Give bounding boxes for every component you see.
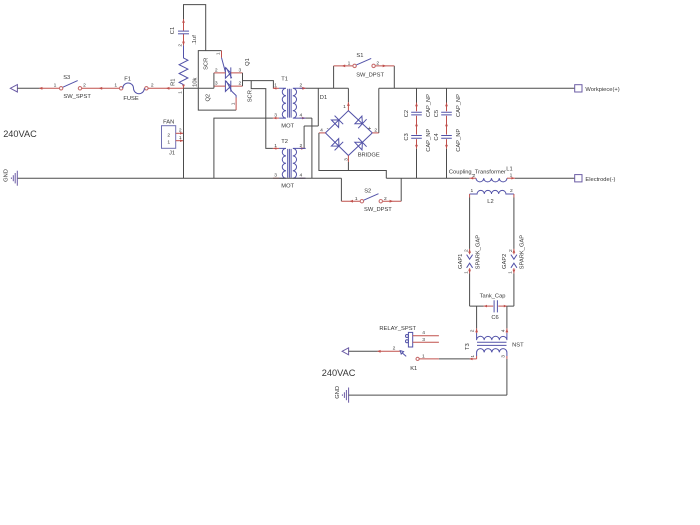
svg-text:GND: GND [335,386,341,399]
svg-text:1: 1 [274,83,277,89]
svg-text:SCR: SCR [248,90,254,102]
wire bottom ground rail [349,394,507,396]
inductor L1 Coupling_Transformer [449,166,515,182]
capacitor C4 CAP_NP [434,129,462,179]
SCR junction verticals [214,73,243,88]
capacitor C3 CAP_NP [404,129,432,179]
net flag 240VAC bottom arrow [322,348,356,378]
svg-text:3: 3 [501,355,507,358]
svg-text:D1: D1 [320,95,327,101]
svg-text:2: 2 [151,83,154,89]
resistor R1 10k [170,44,198,94]
svg-text:C1: C1 [170,27,176,34]
net flag 240VAC hot (left arrow) [3,85,37,139]
wire tank rail to T3 [476,306,478,328]
connector J1 FAN [162,119,184,156]
ground symbol left GND [4,169,18,186]
wire node to SCR block [184,87,214,89]
ground symbol bottom GND [335,386,349,403]
svg-text:1: 1 [216,52,222,55]
svg-text:1: 1 [422,353,425,359]
svg-text:2: 2 [472,173,475,179]
svg-text:SW_SPST: SW_SPST [63,94,91,100]
svg-text:2: 2 [508,249,514,252]
svg-text:1: 1 [274,143,277,149]
svg-text:Q1: Q1 [245,58,251,66]
svg-text:3: 3 [422,337,425,343]
port Electrode(-) [575,175,616,183]
spark gap GAP1 SPARK_GAP [458,235,481,274]
capacitor C1 .1uf [170,19,198,45]
svg-text:2: 2 [384,196,387,202]
svg-text:240VAC: 240VAC [322,368,356,378]
svg-text:RELAY_SPST: RELAY_SPST [379,326,416,332]
transformer T2 MOT [273,139,306,190]
svg-text:T1: T1 [281,76,288,82]
svg-text:4: 4 [500,329,506,332]
svg-text:Q2: Q2 [205,94,211,102]
wire arrow to relay [349,350,401,353]
svg-text:3: 3 [239,67,242,73]
svg-text:2: 2 [469,329,475,332]
svg-text:FUSE: FUSE [123,96,138,102]
wire T1 pin2 along top [306,87,349,89]
svg-text:2: 2 [167,132,170,138]
svg-text:2: 2 [177,44,183,47]
svg-text:1: 1 [510,172,513,178]
svg-text:4: 4 [300,113,303,119]
svg-text:240VAC: 240VAC [3,129,37,139]
svg-text:NST: NST [512,343,524,349]
svg-text:L2: L2 [487,199,493,205]
svg-text:CAP_NP: CAP_NP [426,129,432,152]
svg-text:J1: J1 [169,151,175,157]
wire bridge pin2 up to top rail [378,88,380,133]
svg-text:T3: T3 [465,343,471,350]
wire L2 left leg down [469,198,471,249]
capacitor C5 CAP_NP [434,88,462,134]
svg-text:1: 1 [463,271,469,274]
svg-text:4: 4 [320,127,323,133]
svg-text:SPARK_GAP: SPARK_GAP [520,235,526,270]
svg-text:1: 1 [54,83,57,89]
transformer T1 MOT [273,76,306,129]
fuse F1 [114,77,154,103]
svg-text:1: 1 [179,135,182,141]
svg-text:2: 2 [393,346,396,352]
wire bridge pin3/pin4 U loop [319,133,386,178]
svg-text:FAN: FAN [163,119,174,125]
wire F1 to node R1 [148,87,183,90]
svg-text:SW_DPST: SW_DPST [364,207,392,213]
svg-text:1: 1 [355,196,358,202]
svg-text:2: 2 [376,61,379,67]
svg-text:SPARK_GAP: SPARK_GAP [475,235,481,270]
svg-text:2: 2 [215,67,218,73]
svg-text:Electrode(-): Electrode(-) [585,177,615,183]
svg-text:C3: C3 [404,133,410,140]
wire junction T1 pin4 / T2 pin2 [304,88,318,178]
top rail right of bridge [379,87,575,89]
svg-text:1: 1 [343,104,346,110]
wire L2 right leg down [513,198,515,249]
ground rail [17,177,341,179]
svg-text:2: 2 [239,81,242,87]
svg-text:2: 2 [83,83,86,89]
svg-text:MOT: MOT [281,124,294,130]
svg-text:GAP2: GAP2 [502,254,508,269]
svg-text:2: 2 [179,127,182,133]
port Workpiece(+) [575,85,620,93]
svg-text:SW_DPST: SW_DPST [356,73,384,79]
wire T3 pin1 to relay [439,358,477,361]
wire SCR output branch to T2 pin1 [251,81,273,149]
SCR Q1 [203,51,251,79]
svg-text:C2: C2 [404,110,410,117]
svg-text:GAP1: GAP1 [458,254,464,269]
svg-text:2: 2 [300,143,303,149]
svg-text:3: 3 [344,158,350,161]
switch S3 SW_SPST [54,75,92,100]
svg-text:4: 4 [422,330,425,336]
bridge rectifier D1 [319,88,380,162]
wire R1 node down to ground (FAN feed) [183,88,185,178]
svg-text:1: 1 [348,61,351,67]
svg-text:S2: S2 [364,189,371,195]
wire T1 pin3 to ground [214,118,273,178]
svg-text:-: - [327,126,329,132]
svg-text:3: 3 [215,81,218,87]
svg-text:CAP_NP: CAP_NP [426,94,432,117]
svg-text:1: 1 [114,83,117,89]
svg-text:1: 1 [178,91,184,94]
svg-text:Workpiece(+): Workpiece(+) [585,87,619,93]
wire SCR output to T1 pin1 [243,81,274,89]
svg-text:1: 1 [167,139,170,145]
wire gaps to tank rail [469,273,471,306]
svg-text:C4: C4 [434,132,440,140]
svg-text:K1: K1 [410,366,417,372]
wire C1 top loop to SCR gate box [184,5,206,51]
wire T3 pin3 down to ground [506,359,508,395]
svg-text:2: 2 [510,188,513,194]
svg-text:2: 2 [300,83,303,89]
svg-text:S1: S1 [356,53,363,59]
spark gap GAP2 SPARK_GAP [502,235,525,274]
wire arrow to S3 [17,87,59,90]
svg-text:Tank_Cap: Tank_Cap [480,294,506,300]
SCR gate wire box [198,51,236,111]
svg-text:10k: 10k [192,77,198,86]
switch S1 SW_DPST [334,53,395,89]
svg-text:CAP_NP: CAP_NP [456,129,462,152]
svg-text:3: 3 [274,113,277,119]
svg-text:GND: GND [4,169,10,182]
capacitor C2 CAP_NP [404,88,432,134]
svg-text:1: 1 [471,188,474,194]
svg-text:Coupling_Transformer: Coupling_Transformer [449,170,506,176]
svg-text:MOT: MOT [281,184,294,190]
svg-text:BRIDGE: BRIDGE [358,153,380,159]
svg-text:1: 1 [508,271,514,274]
svg-text:2: 2 [374,127,377,133]
svg-text:.1uf: .1uf [192,35,198,45]
svg-text:SCR: SCR [203,58,209,70]
svg-text:S3: S3 [63,75,70,81]
svg-text:F1: F1 [124,77,131,83]
svg-text:1: 1 [470,355,476,358]
svg-text:C6: C6 [491,315,498,321]
SCR Q2 [205,81,253,111]
svg-text:C5: C5 [434,110,440,117]
svg-text:T2: T2 [281,139,288,145]
svg-text:R1: R1 [170,79,176,86]
switch S2 SW_DPST [341,178,401,213]
wire S3 to F1 [82,87,120,90]
capacitor C6 Tank_Cap [480,294,508,321]
svg-text:CAP_NP: CAP_NP [456,94,462,117]
svg-text:L1: L1 [506,166,512,172]
transformer T3 NST [465,328,524,359]
relay K1 RELAY_SPST [379,326,439,372]
svg-text:1: 1 [231,102,237,105]
svg-text:2: 2 [464,249,470,252]
inductor L2 [470,188,514,205]
